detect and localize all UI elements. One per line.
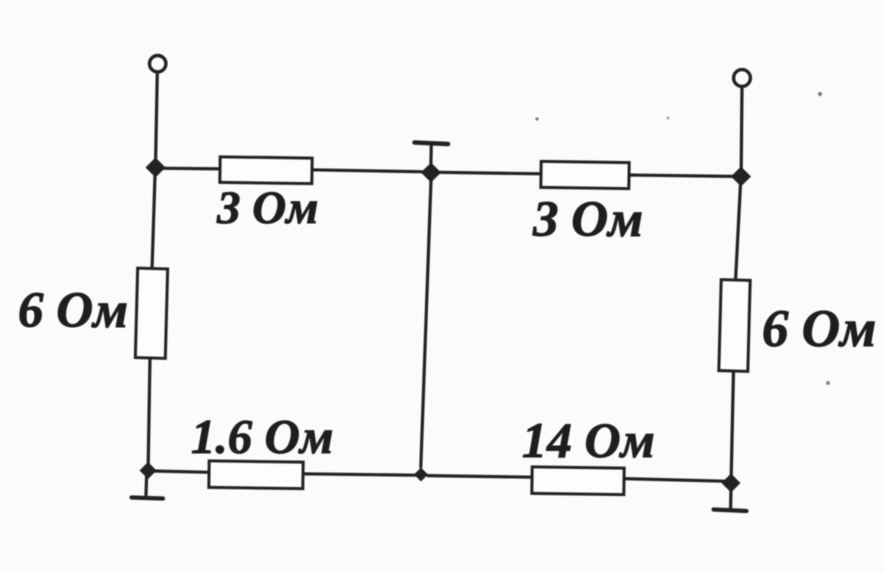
ground bottom-left	[132, 476, 164, 499]
wire left terminal lead	[156, 72, 158, 161]
resistor R3 6 Om (left rail)	[135, 268, 167, 358]
wire left rail upper	[152, 175, 155, 270]
wire top-right segment a	[438, 172, 542, 174]
wire center vertical	[421, 180, 431, 467]
scan speck 2	[667, 117, 670, 120]
ground bottom-right	[714, 489, 747, 511]
scan speck 3	[818, 92, 822, 96]
svg-text:14 Ом: 14 Ом	[522, 412, 655, 468]
resistor R2 3 Om (top right)	[541, 161, 629, 188]
svg-text:1.6 Ом: 1.6 Ом	[191, 409, 333, 464]
svg-text:6 Ом: 6 Ом	[18, 283, 128, 339]
svg-text:3 Ом: 3 Ом	[216, 182, 318, 234]
wire top-right segment b	[628, 175, 741, 177]
wire bottom-right segment a	[428, 476, 533, 478]
scan speck 1	[535, 117, 538, 120]
wire right terminal lead	[740, 87, 744, 170]
node junction bottom-right	[722, 474, 741, 493]
wire bottom-right segment b	[623, 479, 725, 482]
node junction top-left	[146, 158, 166, 178]
wire right rail upper	[736, 184, 741, 281]
node junction top-center	[421, 163, 441, 183]
wire top-left segment b	[311, 170, 425, 172]
terminal left (open circle)	[150, 56, 166, 72]
scan speck 4	[826, 381, 830, 385]
resistor R5 1.6 Om (bottom left)	[209, 461, 303, 489]
resistor R4 6 Om (right rail)	[719, 280, 750, 372]
node junction bottom-left	[140, 462, 157, 479]
wire top-left segment a	[156, 167, 222, 171]
terminal tap symbol above top-center node	[415, 143, 449, 165]
wire left rail lower	[148, 357, 150, 464]
svg-text:3 Ом: 3 Ом	[532, 192, 643, 248]
terminal right (open circle)	[734, 70, 751, 87]
wire right rail lower	[731, 370, 733, 476]
svg-text:6 Ом: 6 Ом	[762, 300, 876, 358]
resistor R6 14 Om (bottom right)	[532, 467, 624, 495]
node junction bottom-center	[414, 468, 428, 482]
resistor R1 3 Om (top left)	[220, 157, 312, 184]
wire bottom-left segment b	[302, 474, 415, 475]
node junction top-right	[731, 167, 751, 187]
wire bottom-left segment a	[154, 471, 210, 472]
